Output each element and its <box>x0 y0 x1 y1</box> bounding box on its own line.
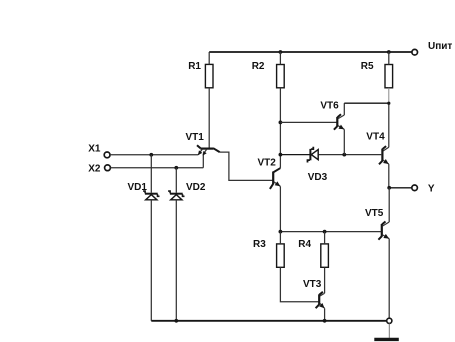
svg-text:VT5: VT5 <box>365 208 384 219</box>
svg-text:VD3: VD3 <box>308 172 328 183</box>
svg-text:VT2: VT2 <box>258 157 277 168</box>
svg-text:R3: R3 <box>253 239 266 250</box>
svg-text:VD1: VD1 <box>128 182 148 193</box>
svg-text:VD2: VD2 <box>186 182 206 193</box>
svg-text:Uпит: Uпит <box>428 41 452 52</box>
svg-text:VT4: VT4 <box>366 131 385 142</box>
svg-text:VT6: VT6 <box>320 100 339 111</box>
svg-text:R1: R1 <box>188 61 201 72</box>
svg-text:X1: X1 <box>88 144 101 155</box>
svg-text:VT1: VT1 <box>186 132 205 143</box>
svg-text:R5: R5 <box>361 61 374 72</box>
svg-text:R2: R2 <box>252 61 265 72</box>
svg-text:X2: X2 <box>88 163 101 174</box>
svg-text:VT3: VT3 <box>303 279 322 290</box>
svg-text:Y: Y <box>428 183 435 194</box>
svg-text:R4: R4 <box>298 239 311 250</box>
